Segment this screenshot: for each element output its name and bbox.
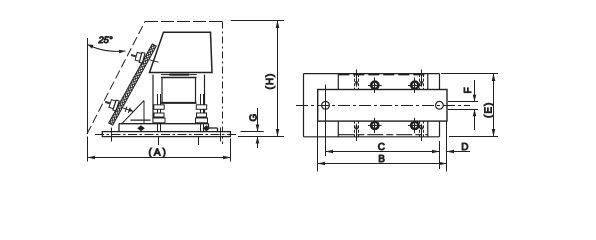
svg-text:(E): (E) xyxy=(484,102,495,118)
svg-text:(H): (H) xyxy=(265,73,276,90)
svg-text:B: B xyxy=(378,154,385,165)
svg-text:D: D xyxy=(461,142,468,153)
svg-text:F: F xyxy=(463,87,474,93)
svg-text:(A): (A) xyxy=(149,147,168,158)
svg-text:G: G xyxy=(249,114,260,122)
svg-text:25°: 25° xyxy=(98,35,113,45)
svg-text:C: C xyxy=(378,142,385,153)
